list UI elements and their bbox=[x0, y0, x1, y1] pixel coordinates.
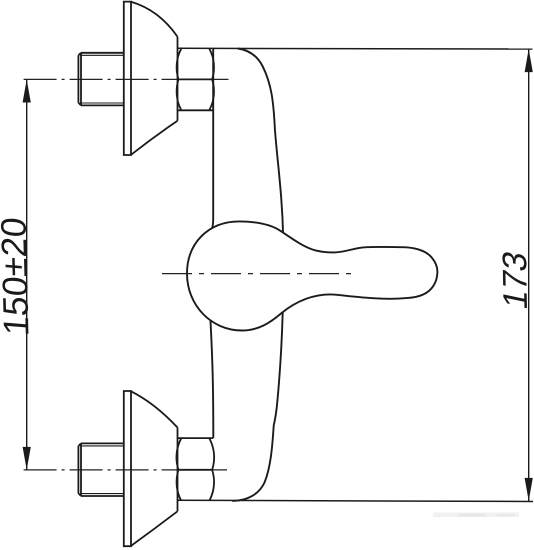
svg-text:150±20: 150±20 bbox=[0, 216, 37, 337]
svg-text:173: 173 bbox=[496, 248, 534, 313]
